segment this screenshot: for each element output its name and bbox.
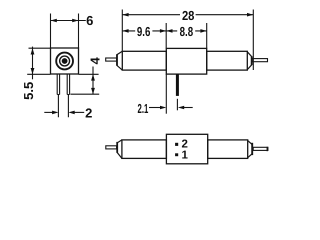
dim 5.5 arrows bbox=[31, 48, 35, 54]
bottom view body cylinder right with tip bbox=[208, 140, 248, 159]
svg-text:2.1: 2.1 bbox=[138, 101, 149, 116]
dim 2 line right bbox=[74, 111, 84, 113]
flange edge extension line bbox=[165, 74, 167, 114]
coax center pin dot bbox=[62, 58, 68, 64]
dim 6 line bbox=[51, 20, 86, 22]
dim 6 extension lines bbox=[51, 14, 79, 49]
dim 6 arrows bbox=[51, 19, 57, 23]
coax middle ring bbox=[60, 56, 70, 66]
dim 5.5 line bbox=[32, 47, 34, 80]
front view left pin bbox=[57, 74, 59, 117]
dim 2.1 line right bbox=[184, 107, 193, 109]
dim 4 arrows bbox=[91, 74, 95, 80]
side view flange bbox=[166, 48, 206, 74]
side view body cylinder right with tip bbox=[207, 51, 248, 70]
front view right pin bbox=[67, 74, 69, 117]
dim 4 line bbox=[92, 67, 94, 95]
side view right lead bbox=[252, 59, 267, 62]
dim 8.8 line bbox=[166, 30, 207, 32]
dim 9.6 8.8 extension lines bbox=[166, 23, 207, 48]
bottom view flange bbox=[166, 134, 207, 164]
svg-text:9.6: 9.6 bbox=[137, 24, 151, 39]
dim 9.6 arrows bbox=[122, 29, 128, 33]
bottom view left nose cone bbox=[117, 140, 122, 159]
dim 5.5 extension lines bbox=[27, 48, 50, 74]
dim 2.1 line left bbox=[149, 107, 161, 109]
pin 1 marker bbox=[175, 153, 178, 156]
dim 2.1 arrows bbox=[160, 106, 166, 110]
svg-text:5.5: 5.5 bbox=[21, 82, 36, 100]
svg-text:4: 4 bbox=[87, 57, 102, 65]
svg-text:28: 28 bbox=[182, 8, 195, 23]
bottom view left lead bbox=[106, 146, 117, 149]
dim 4 extension lines bbox=[71, 74, 100, 94]
side view body cylinder left bbox=[122, 51, 166, 70]
dim 28 line bbox=[122, 14, 253, 16]
dim 28 arrows bbox=[122, 13, 128, 17]
dim 9.6 line bbox=[122, 30, 166, 32]
dim 2 arrows bbox=[52, 111, 58, 115]
bottom view right lead bbox=[253, 147, 268, 150]
coax outer ring bbox=[56, 53, 73, 70]
side view left nose cone bbox=[117, 51, 122, 70]
dim 28 extension lines bbox=[122, 10, 253, 71]
svg-text:1: 1 bbox=[181, 150, 188, 162]
side view bottom pin bbox=[176, 74, 179, 96]
dim 8.8 arrows bbox=[166, 29, 172, 33]
svg-text:6: 6 bbox=[86, 13, 93, 28]
svg-text:8.8: 8.8 bbox=[180, 24, 194, 39]
bottom view body cylinder left bbox=[122, 140, 166, 159]
front view square body bbox=[51, 48, 79, 74]
side view left lead bbox=[106, 58, 117, 61]
side view pin extension line bbox=[176, 99, 178, 111]
dim 2 line left bbox=[44, 111, 52, 113]
svg-text:2: 2 bbox=[85, 106, 92, 121]
pin 2 marker bbox=[175, 143, 178, 146]
bottom view right lead cap bbox=[266, 147, 268, 151]
